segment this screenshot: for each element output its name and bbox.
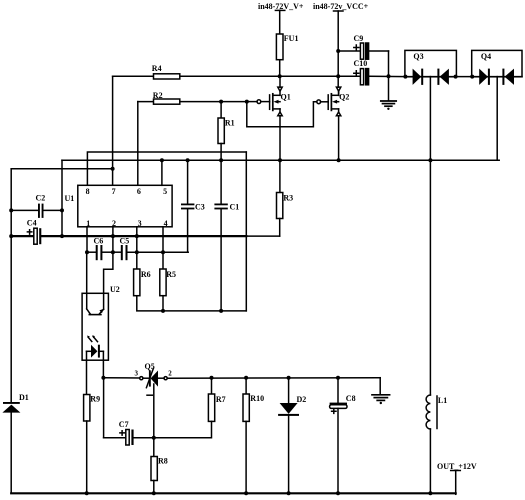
capacitor C1: [214, 160, 239, 311]
node C7/R8/Q5: [152, 436, 156, 440]
capacitor C3: [181, 160, 205, 252]
node C3/y160: [186, 158, 190, 162]
node pin5/y160: [160, 158, 164, 162]
inductor L1: [426, 160, 447, 493]
wire pin8 column and y=152 line: [87, 152, 246, 185]
node VCC/C9: [336, 49, 340, 53]
node D2 top: [287, 376, 291, 380]
svg-text:C5: C5: [120, 236, 130, 245]
wire C7 left vertical: [103, 378, 105, 438]
node pin3/C5: [135, 250, 139, 254]
node U2/Q5 pin3: [101, 376, 105, 380]
svg-text:R7: R7: [216, 395, 226, 404]
node R5/y311: [161, 309, 165, 313]
wire gate link Q1->Q2: [247, 102, 317, 127]
diode D2: [278, 378, 306, 494]
node C2 right: [60, 208, 64, 212]
node VCC/bus: [336, 74, 340, 78]
node R1-C1/y160: [219, 158, 223, 162]
optocoupler U2: [82, 252, 120, 394]
node C4 left: [9, 234, 13, 238]
wire pin5 stub: [161, 160, 163, 185]
svg-text:C10: C10: [354, 59, 368, 68]
node R9/bottom bus: [85, 491, 89, 495]
node R10 top: [244, 376, 248, 380]
svg-text:C3: C3: [195, 202, 205, 211]
svg-text:R4: R4: [152, 64, 162, 73]
svg-text:5: 5: [163, 187, 167, 196]
svg-text:D1: D1: [19, 393, 29, 402]
diode pack Q3: [405, 50, 457, 85]
resistor R4: [154, 74, 180, 79]
capacitor C6: [87, 236, 113, 260]
wire Q5 right line: [167, 377, 380, 380]
resistor R9: [84, 395, 100, 494]
node Q4 left: [470, 75, 474, 79]
resistor R10: [243, 378, 264, 494]
wire top bus y=76.3 left part: [113, 75, 361, 77]
svg-text:C8: C8: [346, 394, 356, 403]
node Q2 source/y160: [337, 158, 341, 162]
wire V+ vertical: [275, 9, 284, 11]
node pin2/C6-C5: [111, 250, 115, 254]
wire Q3-Q4 link: [456, 76, 473, 78]
svg-text:R6: R6: [141, 270, 151, 279]
wire y=168.8 line: [11, 168, 112, 170]
node R2/R1: [219, 100, 223, 104]
IC U1: [65, 185, 173, 228]
svg-text:8: 8: [86, 187, 90, 196]
fuse FU1: [276, 34, 283, 60]
resistor R8: [151, 438, 168, 494]
svg-text:C1: C1: [230, 202, 240, 211]
wire right drop x=246.3: [245, 152, 247, 311]
LED light arrows: [88, 337, 97, 342]
node pin1/C6: [85, 250, 89, 254]
node R7 top: [210, 376, 214, 380]
capacitor C8 (polarized): [330, 378, 356, 494]
capacitor C7 (polarized): [104, 420, 154, 445]
node R10/bottom bus: [244, 491, 248, 495]
wire pin1 column: [86, 227, 88, 252]
svg-text:C4: C4: [27, 219, 37, 228]
node pin3/bus: [135, 234, 139, 238]
wire pin6 column: [137, 102, 139, 186]
svg-text:U2: U2: [110, 285, 120, 294]
node C8/bottom bus: [336, 491, 340, 495]
node pin2/bus: [111, 234, 115, 238]
wire Q4 mid down and left to output line: [430, 77, 497, 161]
svg-text:3: 3: [135, 370, 139, 378]
capacitor C10: [354, 59, 369, 85]
shunt reg Q5: [135, 362, 173, 438]
node Q1 source/y160: [278, 158, 282, 162]
node OUT +12V: [437, 462, 477, 494]
wire x=62 vertical: [61, 160, 63, 236]
wire y=160.2 output line: [62, 159, 499, 161]
wire R3 bottom link: [246, 235, 279, 237]
svg-text:C7: C7: [119, 420, 129, 429]
wire Q3 mid down to output line: [429, 77, 431, 161]
node pin4/C-line: [161, 250, 165, 254]
svg-text:C2: C2: [36, 194, 46, 203]
svg-text:R3: R3: [283, 193, 293, 202]
wire x=11 vertical (left rail): [10, 169, 12, 402]
diode D1: [2, 393, 28, 493]
svg-text:OUT_+12V: OUT_+12V: [437, 462, 477, 471]
wire pin2 column + jog to U2: [104, 227, 113, 293]
wire pin7 column (R4 left down to U1 pin7): [112, 76, 114, 185]
node C2 left: [9, 208, 13, 212]
svg-text:in48-72v_VCC+: in48-72v_VCC+: [313, 2, 369, 11]
wire bottom bus: [11, 492, 456, 494]
svg-text:R10: R10: [250, 394, 264, 403]
wire main bus y=236.1: [41, 235, 246, 237]
svg-text:Q2: Q2: [339, 93, 349, 102]
node C8 top: [336, 376, 340, 380]
svg-text:D2: D2: [297, 395, 307, 404]
svg-text:Q4: Q4: [481, 52, 491, 61]
resistor R7: [154, 378, 226, 438]
ground (top, near C9/C10): [381, 101, 396, 110]
wire C9/C10 right to ground: [388, 51, 390, 101]
svg-text:6: 6: [137, 187, 141, 196]
node C10 right/gnd: [387, 74, 391, 78]
diode pack Q4: [472, 50, 522, 85]
capacitor C4 (polarized) on bus: [11, 219, 41, 245]
ground (near C8): [372, 395, 390, 404]
svg-text:C6: C6: [94, 236, 104, 245]
capacitor C2: [11, 194, 62, 218]
phototransistor: [86, 252, 88, 309]
svg-text:U1: U1: [65, 194, 75, 203]
svg-text:R8: R8: [158, 457, 168, 466]
wire pin4 column: [162, 227, 164, 269]
wire U2 right pin to Q5 line: [103, 377, 139, 379]
resistor R5: [160, 269, 176, 311]
node D2/bottom bus: [287, 491, 291, 495]
svg-text:L1: L1: [438, 396, 447, 405]
node pin7/y168: [111, 167, 115, 171]
transistor Q2 (MOSFET): [317, 87, 350, 160]
node C1/y311: [219, 309, 223, 313]
resistor R6: [134, 269, 247, 311]
svg-text:R5: R5: [166, 270, 176, 279]
svg-text:4: 4: [164, 219, 168, 228]
resistor R3: [277, 160, 294, 236]
resistor R1: [218, 102, 235, 161]
node R8/bottom bus: [152, 491, 156, 495]
svg-text:3: 3: [138, 219, 142, 228]
node Q3 right: [454, 75, 458, 79]
svg-text:R1: R1: [225, 119, 235, 128]
node L1/y160: [428, 158, 432, 162]
svg-text:R2: R2: [153, 91, 163, 100]
svg-text:C9: C9: [354, 34, 364, 43]
svg-text:2: 2: [168, 370, 172, 378]
wire VCC vertical: [334, 10, 344, 12]
svg-text:7: 7: [112, 187, 116, 196]
node V+/bus: [278, 74, 282, 78]
svg-text:Q3: Q3: [413, 52, 423, 61]
svg-text:FU1: FU1: [284, 34, 299, 43]
node x62/bus: [60, 234, 64, 238]
LED diode: [91, 345, 97, 358]
svg-text:R9: R9: [90, 395, 100, 404]
capacitor C9: [338, 34, 388, 59]
transistor Q1 (MOSFET): [247, 76, 291, 160]
node L1/bottom bus: [428, 491, 432, 495]
svg-text:Q1: Q1: [281, 93, 291, 102]
node R2/Q1 gate: [245, 100, 249, 104]
wire bus right part (to Q3): [369, 75, 406, 77]
capacitor C5: [113, 236, 188, 260]
resistor R2 with wire: [138, 91, 247, 104]
wire Q5-line right end down to ground: [379, 378, 381, 394]
node Q3 left: [403, 75, 407, 79]
wire pin3 column: [136, 227, 138, 269]
wire C-line right end up to C3: [187, 251, 189, 253]
